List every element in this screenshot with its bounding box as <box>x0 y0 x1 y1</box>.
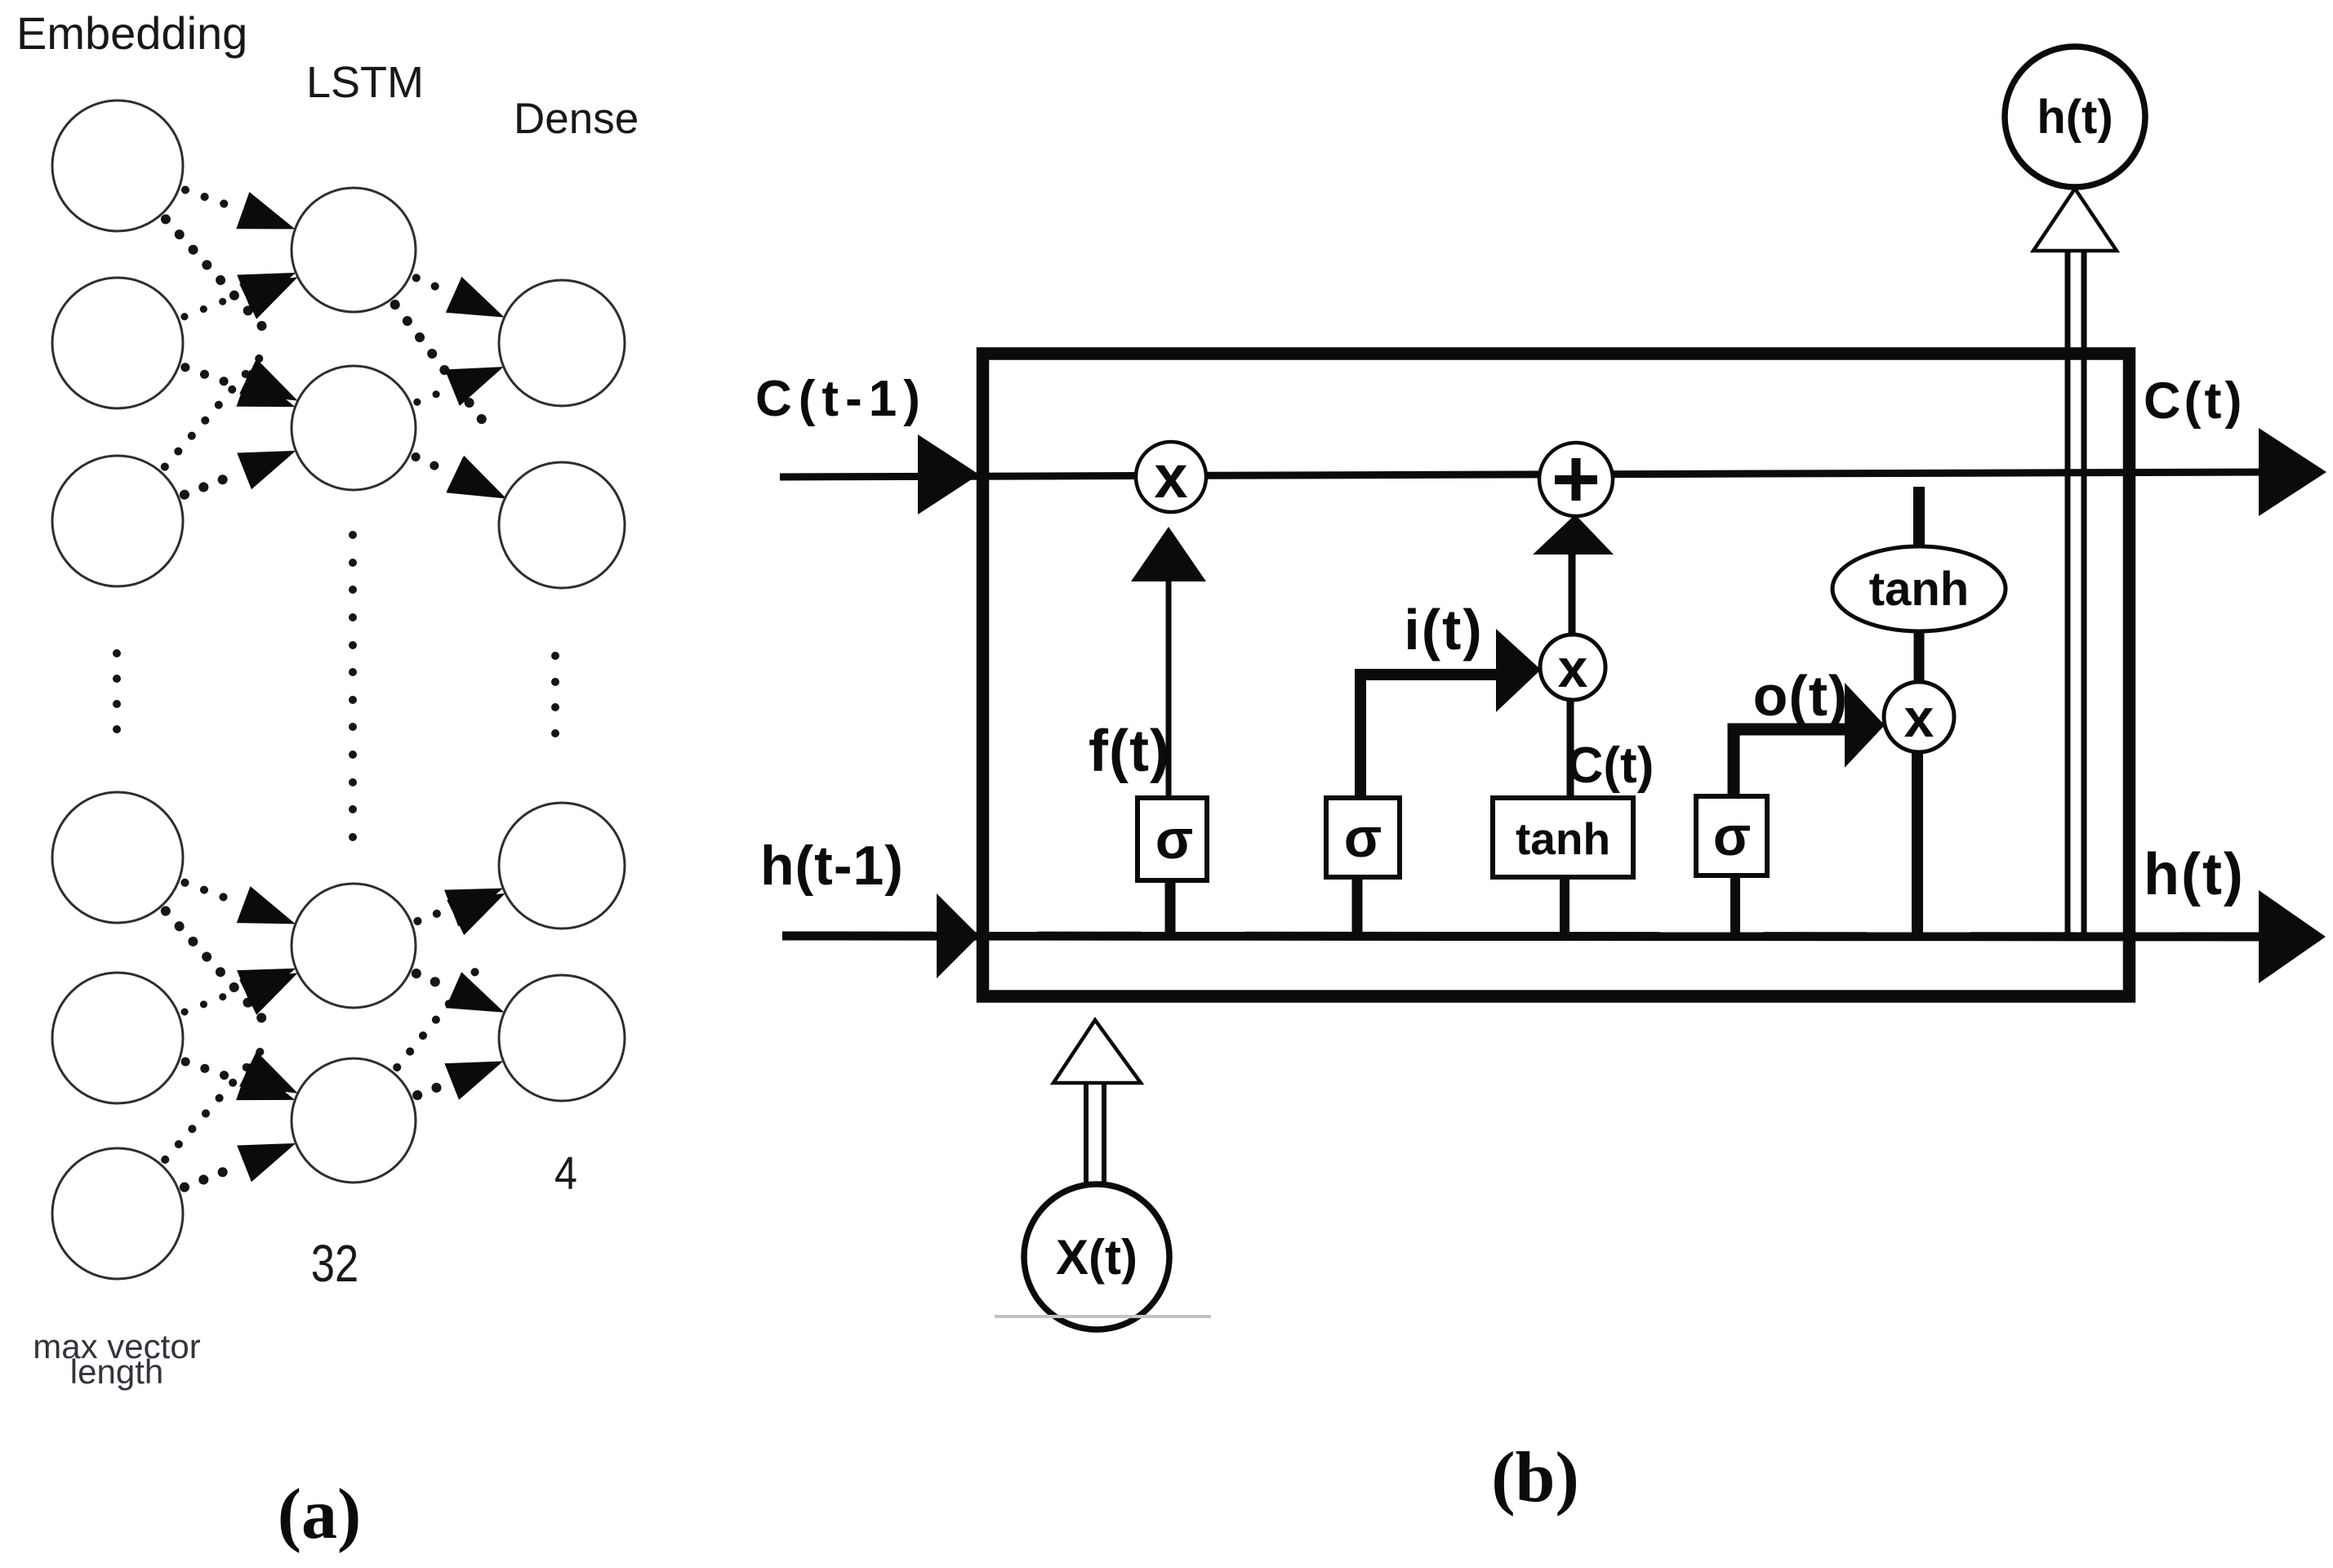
svg-text:x: x <box>1154 443 1187 510</box>
svg-text:tanh: tanh <box>1516 813 1610 864</box>
svg-text:(b): (b) <box>1491 1438 1579 1517</box>
svg-text:Embedding: Embedding <box>16 7 247 59</box>
svg-text:length: length <box>70 1352 163 1391</box>
svg-text:4: 4 <box>554 1147 577 1200</box>
svg-text:f(t): f(t) <box>1089 719 1170 784</box>
svg-text:o(t): o(t) <box>1753 664 1849 728</box>
svg-text:σ: σ <box>1713 805 1752 867</box>
svg-text:h(t): h(t) <box>2037 91 2113 144</box>
svg-text:C(t-1): C(t-1) <box>755 371 927 427</box>
svg-text:x: x <box>1904 688 1935 748</box>
svg-text:32: 32 <box>311 1235 358 1293</box>
svg-text:h(t): h(t) <box>2144 842 2245 907</box>
svg-text:(a): (a) <box>278 1475 362 1554</box>
svg-text:X(t): X(t) <box>1056 1230 1138 1285</box>
svg-text:σ: σ <box>1155 808 1194 871</box>
svg-text:LSTM: LSTM <box>306 58 424 107</box>
svg-text:h(t-1): h(t-1) <box>760 835 904 897</box>
svg-text:C(t): C(t) <box>2144 372 2245 430</box>
svg-text:C(t): C(t) <box>1567 737 1654 794</box>
svg-text:Dense: Dense <box>514 95 639 143</box>
svg-text:σ: σ <box>1344 807 1382 869</box>
svg-text:i(t): i(t) <box>1404 598 1483 661</box>
svg-text:x: x <box>1558 638 1588 698</box>
svg-text:tanh: tanh <box>1869 563 1969 616</box>
